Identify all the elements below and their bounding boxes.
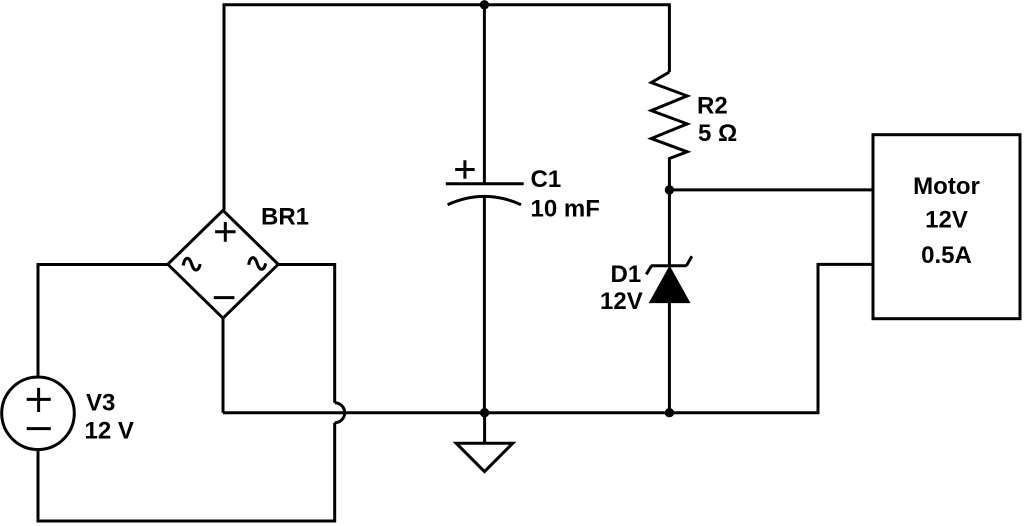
svg-text:V3: V3: [86, 390, 115, 417]
svg-text:12V: 12V: [925, 206, 968, 233]
svg-text:5 Ω: 5 Ω: [698, 120, 737, 147]
svg-text:BR1: BR1: [261, 203, 309, 230]
svg-text:10 mF: 10 mF: [531, 195, 600, 222]
svg-text:C1: C1: [531, 166, 562, 193]
svg-text:12V: 12V: [600, 288, 643, 315]
svg-text:12 V: 12 V: [85, 418, 134, 445]
svg-text:0.5A: 0.5A: [921, 242, 972, 269]
svg-text:D1: D1: [611, 261, 642, 288]
svg-text:R2: R2: [697, 92, 728, 119]
svg-text:Motor: Motor: [913, 173, 980, 200]
